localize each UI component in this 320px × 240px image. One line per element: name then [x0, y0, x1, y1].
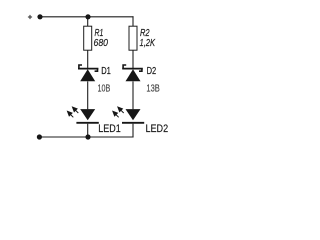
svg-text:10В: 10В: [98, 83, 111, 94]
svg-text:1,2K: 1,2K: [140, 38, 156, 49]
svg-text:680: 680: [94, 38, 109, 49]
svg-text:13В: 13В: [146, 84, 160, 95]
svg-text:LED1: LED1: [98, 123, 121, 135]
svg-text:D2: D2: [147, 66, 157, 77]
svg-text:LED2: LED2: [146, 123, 169, 135]
svg-text:D1: D1: [101, 66, 111, 77]
